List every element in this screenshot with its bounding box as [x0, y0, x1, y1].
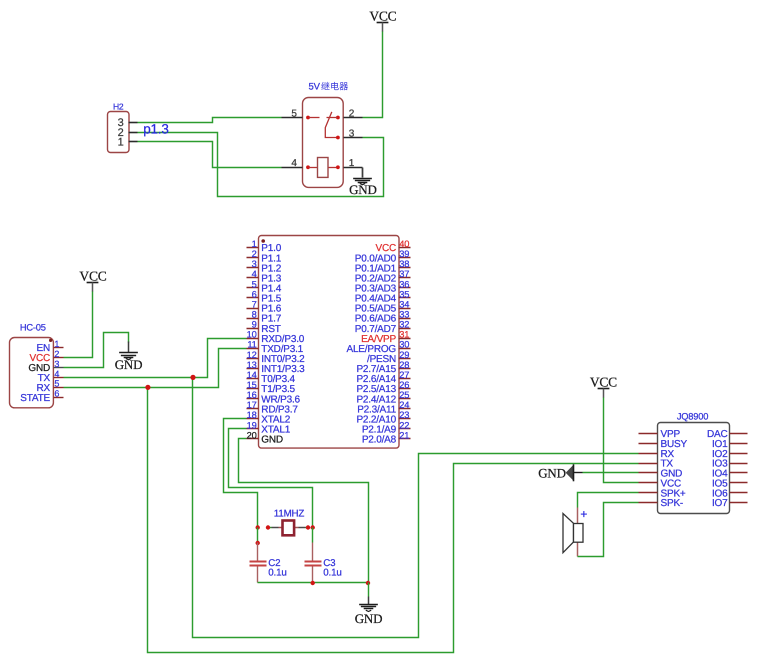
svg-text:7: 7 — [252, 299, 257, 309]
wire crystal left to C2 — [257, 528, 259, 543]
wire MCU XTAL1 to crystal — [229, 429, 313, 528]
MCU pin 1 P1.0 — [247, 239, 282, 254]
MCU pin 32 P0.7/AD7 — [355, 320, 411, 335]
connector H2 — [108, 102, 130, 153]
svg-text:31: 31 — [399, 330, 409, 340]
svg-text:12: 12 — [247, 350, 257, 360]
MCU pin 40 VCC — [375, 239, 410, 254]
JQ8900 pin IO7 — [712, 498, 748, 509]
MCU pin 10 RXD/P3.0 — [247, 330, 305, 345]
JQ8900 pin VPP — [639, 429, 681, 440]
JQ8900 pin SPK- — [639, 498, 684, 509]
wire ground to JQ8900 GND pin — [583, 472, 639, 474]
MCU pin 38 P0.1/AD1 — [355, 259, 411, 274]
svg-text:10: 10 — [247, 330, 257, 340]
module U2 JQ8900 body — [658, 412, 730, 514]
MCU pin 29 /PESN — [367, 350, 411, 365]
svg-text:4: 4 — [252, 269, 257, 279]
svg-text:+: + — [580, 507, 587, 521]
svg-text:21: 21 — [399, 430, 409, 440]
HC-05 pin 4 TX — [38, 369, 64, 384]
svg-text:2: 2 — [349, 108, 355, 119]
MCU pin 13 INT1/P3.3 — [247, 360, 306, 375]
svg-text:H2: H2 — [113, 102, 124, 112]
wire VCC to relay pin 2 — [363, 32, 383, 118]
MCU pin 34 P0.5/AD5 — [355, 299, 411, 314]
svg-text:VCC: VCC — [369, 8, 396, 23]
relay label 5V继电器 — [309, 82, 349, 93]
MCU pin 7 P1.6 — [247, 299, 282, 314]
HC-05 pin 1 EN — [37, 339, 64, 354]
junction (C2 top) — [256, 541, 260, 545]
MCU pin 9 RST — [247, 320, 281, 335]
speaker LS1 — [563, 507, 587, 557]
svg-text:14: 14 — [247, 370, 257, 380]
MCU pin 12 INT0/P3.2 — [247, 350, 306, 365]
capacitor C3 0.1u — [305, 543, 342, 583]
svg-text:2: 2 — [252, 249, 257, 259]
wire JQ8900 SPK- to speaker — [578, 503, 639, 557]
MCU pin 21 P2.0/A8 — [362, 430, 411, 445]
svg-text:GND: GND — [355, 611, 383, 626]
wire HC-05 RX to MCU TXD/P3.1 — [64, 349, 247, 388]
junction (C3 bottom) — [311, 581, 315, 585]
capacitor C2 0.1u — [250, 543, 287, 583]
MCU pin 17 RD/P3.7 — [247, 400, 299, 415]
svg-text:40: 40 — [399, 239, 409, 249]
svg-text:16: 16 — [247, 390, 257, 400]
power symbol VCC (relay supply) — [369, 8, 396, 31]
MCU pin 20 GND — [247, 430, 283, 445]
power symbol VCC (JQ8900) — [590, 375, 617, 398]
svg-text:HC-05: HC-05 — [20, 323, 46, 333]
svg-text:18: 18 — [247, 410, 257, 420]
H2 pin 3 — [118, 117, 138, 129]
JQ8900 pin IO6 — [712, 488, 748, 499]
svg-text:3: 3 — [54, 359, 59, 369]
wire caps bottom to ground — [258, 582, 369, 584]
svg-text:1: 1 — [349, 158, 355, 169]
HC-05 pin 2 VCC — [29, 349, 63, 364]
MCU pin 19 XTAL1 — [247, 420, 291, 435]
svg-text:15: 15 — [247, 380, 257, 390]
relay pin 5 — [282, 108, 303, 119]
svg-text:4: 4 — [291, 158, 297, 169]
relay K1 5V relay body — [303, 98, 344, 188]
relay pin 1 — [344, 158, 363, 169]
MCU pin 24 P2.3/A11 — [357, 400, 410, 415]
junction (crystal pin 1) — [266, 525, 270, 529]
svg-text:0.1u: 0.1u — [323, 568, 341, 579]
wire net p1.3: H2 pin 2 to relay pin 3 — [138, 133, 384, 197]
svg-text:4: 4 — [54, 369, 59, 379]
svg-text:11: 11 — [247, 340, 256, 350]
JQ8900 pin SPK+ — [639, 488, 686, 499]
wire VCC to HC-05 VCC pin — [64, 292, 93, 358]
ground symbol GND under relay — [349, 168, 377, 197]
JQ8900 pin IO3 — [712, 459, 748, 470]
JQ8900 pin IO5 — [712, 478, 748, 489]
wire HC-05 TX net down to JQ8900 RX — [193, 378, 639, 638]
svg-text:24: 24 — [399, 400, 409, 410]
JQ8900 pin IO4 — [712, 469, 748, 480]
wire VCC to JQ8900 VCC pin — [604, 398, 639, 483]
svg-text:33: 33 — [399, 309, 409, 319]
svg-text:JQ8900: JQ8900 — [677, 412, 708, 422]
MCU pin 36 P0.3/AD3 — [355, 279, 411, 294]
wire HC-05 TX to MCU RXD/P3.0 — [64, 339, 247, 378]
svg-text:5V: 5V — [309, 82, 321, 93]
MCU pin 37 P0.2/AD2 — [355, 269, 411, 284]
svg-text:17: 17 — [247, 400, 257, 410]
svg-text:8: 8 — [252, 309, 257, 319]
ground symbol GND (JQ8900, sideways) — [538, 464, 582, 481]
HC-05 pin 6 STATE — [20, 389, 63, 404]
svg-text:1: 1 — [54, 339, 59, 349]
ground symbol GND (crystal circuit) — [355, 597, 383, 627]
svg-text:P2.0/A8: P2.0/A8 — [362, 435, 397, 446]
relay pin 3 — [344, 128, 363, 139]
svg-text:22: 22 — [399, 420, 409, 430]
MCU pin 27 P2.6/A14 — [356, 370, 410, 385]
MCU pin 3 P1.2 — [247, 259, 282, 274]
relay pin 2 — [344, 108, 363, 119]
MCU pin 5 P1.4 — [247, 279, 282, 294]
svg-text:1: 1 — [252, 239, 257, 249]
svg-text:GND: GND — [538, 465, 566, 480]
svg-text:11MHZ: 11MHZ — [274, 508, 305, 519]
svg-text:3: 3 — [252, 259, 257, 269]
svg-text:25: 25 — [399, 390, 409, 400]
MCU pin 15 T1/P3.5 — [247, 380, 296, 395]
JQ8900 pin IO2 — [712, 449, 748, 460]
svg-text:SPK-: SPK- — [661, 498, 684, 509]
wire to ground symbol — [368, 583, 370, 597]
svg-text:37: 37 — [399, 269, 409, 279]
svg-text:5: 5 — [291, 108, 297, 119]
svg-text:27: 27 — [399, 370, 409, 380]
MCU pin 1 indicator dot — [261, 239, 265, 243]
ground symbol GND (HC-05) — [115, 342, 143, 372]
svg-text:GND: GND — [115, 357, 143, 372]
JQ8900 pin TX — [639, 459, 674, 470]
MCU pin 22 P2.1/A9 — [362, 420, 411, 435]
svg-text:GND: GND — [349, 182, 377, 197]
svg-text:30: 30 — [399, 340, 409, 350]
svg-text:IO7: IO7 — [712, 498, 728, 509]
MCU pin 26 P2.5/A13 — [356, 380, 410, 395]
MCU pin 16 WR/P3.6 — [247, 390, 301, 405]
svg-text:0.1u: 0.1u — [268, 568, 286, 579]
JQ8900 pin VCC — [639, 478, 682, 489]
svg-text:26: 26 — [399, 380, 409, 390]
JQ8900 pin RX — [639, 449, 675, 460]
wire HC-05 RX net down to JQ8900 TX — [148, 388, 639, 653]
module HC-05 body — [10, 323, 54, 408]
JQ8900 pin DAC — [707, 429, 748, 440]
svg-text:35: 35 — [399, 289, 409, 299]
HC-05 pin 3 GND — [28, 359, 63, 374]
H2 pin 2 — [118, 127, 138, 139]
MCU pin 23 P2.2/A10 — [356, 410, 410, 425]
MCU pin 8 P1.7 — [247, 309, 282, 324]
wire crystal right to C3 — [312, 528, 314, 543]
svg-text:1: 1 — [118, 136, 124, 148]
MCU pin 14 T0/P3.4 — [247, 370, 296, 385]
JQ8900 pin IO1 — [712, 439, 748, 450]
MCU pin 2 P1.1 — [247, 249, 282, 264]
svg-text:20: 20 — [247, 430, 257, 440]
HC-05 pin 5 RX — [37, 379, 64, 394]
MCU pin 39 P0.0/AD0 — [355, 249, 411, 264]
svg-text:STATE: STATE — [20, 393, 50, 404]
MCU pin 33 P0.6/AD6 — [355, 309, 411, 324]
wire MCU GND pin 20 to ground — [239, 439, 369, 583]
svg-text:6: 6 — [54, 389, 59, 399]
svg-text:32: 32 — [399, 320, 409, 330]
wire MCU XTAL2 to crystal — [224, 419, 258, 528]
junction (crystal pin 2) — [306, 525, 310, 529]
MCU pin 35 P0.4/AD4 — [355, 289, 411, 304]
svg-text:34: 34 — [399, 299, 409, 309]
svg-text:GND: GND — [261, 435, 283, 446]
relay switch contact — [306, 112, 340, 140]
MCU pin 28 P2.7/A15 — [356, 360, 410, 375]
MCU pin 30 ALE/PROG — [346, 340, 410, 355]
svg-text:23: 23 — [399, 410, 409, 420]
MCU pin 31 EA/VPP — [361, 330, 410, 345]
relay coil — [306, 158, 340, 178]
junction (TX net) — [190, 375, 195, 380]
MCU pin 11 TXD/P3.1 — [247, 340, 304, 355]
wire HC-05 GND pin to ground — [64, 333, 129, 368]
svg-text:2: 2 — [54, 349, 59, 359]
IC U1 8051 MCU body — [259, 236, 400, 449]
svg-text:VCC: VCC — [79, 269, 106, 284]
junction (XTAL2 node) — [256, 525, 260, 529]
svg-text:VCC: VCC — [590, 375, 617, 390]
svg-text:13: 13 — [247, 360, 257, 370]
svg-text:6: 6 — [252, 289, 257, 299]
svg-text:29: 29 — [399, 350, 409, 360]
svg-text:39: 39 — [399, 249, 409, 259]
svg-text:38: 38 — [399, 259, 409, 269]
svg-text:9: 9 — [252, 320, 257, 330]
svg-text:5: 5 — [54, 379, 59, 389]
JQ8900 pin BUSY — [639, 439, 688, 450]
junction (ground node) — [366, 581, 370, 585]
power symbol VCC (HC-05) — [79, 269, 106, 292]
H2 pin 1 — [118, 136, 138, 148]
MCU pin 18 XTAL2 — [247, 410, 291, 425]
MCU pin 6 P1.5 — [247, 289, 282, 304]
svg-text:36: 36 — [399, 279, 409, 289]
svg-text:p1.3: p1.3 — [143, 122, 168, 137]
HC-05 pin 1 indicator dot — [49, 339, 52, 342]
MCU pin 25 P2.4/A12 — [356, 390, 410, 405]
wire JQ8900 SPK+ to speaker — [578, 493, 639, 508]
relay pin 4 — [282, 158, 303, 169]
svg-text:28: 28 — [399, 360, 409, 370]
svg-text:5: 5 — [252, 279, 257, 289]
MCU pin 4 P1.3 — [247, 269, 282, 284]
JQ8900 pin GND — [639, 469, 683, 480]
ground (relay pin 1) — [362, 168, 364, 178]
wire H2 pin 1 to relay pin 4 — [138, 142, 282, 168]
svg-text:19: 19 — [247, 420, 257, 430]
junction (XTAL1 node) — [311, 525, 315, 529]
junction (RX net) — [145, 385, 150, 390]
wire H2 pin 3 to relay pin 5 — [138, 118, 282, 123]
svg-text:3: 3 — [349, 128, 355, 139]
crystal Y1 11MHZ — [269, 508, 309, 535]
